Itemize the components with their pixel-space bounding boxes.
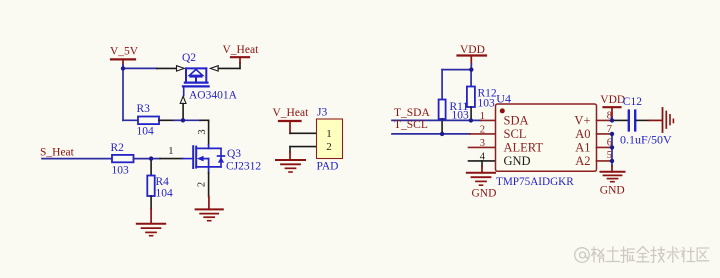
svg-text:2: 2 bbox=[197, 182, 208, 187]
svg-text:PAD: PAD bbox=[317, 160, 339, 172]
svg-text:VDD: VDD bbox=[600, 94, 625, 106]
svg-text:3: 3 bbox=[197, 129, 208, 134]
svg-text:1: 1 bbox=[168, 145, 174, 157]
svg-text:2: 2 bbox=[480, 124, 485, 135]
svg-text:SDA: SDA bbox=[504, 113, 529, 127]
svg-text:8: 8 bbox=[607, 111, 612, 122]
svg-text:ALERT: ALERT bbox=[504, 140, 544, 154]
svg-text:1: 1 bbox=[480, 111, 485, 122]
svg-text:T_SCL: T_SCL bbox=[394, 119, 428, 131]
svg-text:GND: GND bbox=[504, 154, 531, 168]
svg-text:104: 104 bbox=[156, 188, 174, 200]
svg-text:0.1uF/50V: 0.1uF/50V bbox=[620, 132, 672, 146]
svg-text:5: 5 bbox=[607, 150, 612, 161]
svg-text:S_Heat: S_Heat bbox=[40, 147, 75, 159]
svg-text:V_5V: V_5V bbox=[110, 46, 139, 58]
svg-text:TMP75AIDGKR: TMP75AIDGKR bbox=[496, 176, 574, 188]
svg-text:103: 103 bbox=[452, 109, 470, 121]
svg-text:J3: J3 bbox=[317, 106, 327, 118]
svg-text:103: 103 bbox=[112, 165, 130, 177]
svg-text:A1: A1 bbox=[575, 140, 590, 154]
svg-text:GND: GND bbox=[472, 188, 497, 200]
svg-text:7: 7 bbox=[607, 124, 612, 135]
svg-text:2: 2 bbox=[326, 141, 332, 153]
svg-text:R2: R2 bbox=[111, 142, 125, 154]
svg-text:R3: R3 bbox=[137, 103, 151, 115]
svg-text:Q3: Q3 bbox=[227, 148, 241, 160]
svg-text:R4: R4 bbox=[156, 176, 170, 188]
svg-text:V+: V+ bbox=[574, 113, 590, 127]
svg-text:C12: C12 bbox=[623, 96, 642, 108]
svg-text:A2: A2 bbox=[575, 154, 590, 168]
svg-text:A0: A0 bbox=[575, 127, 590, 141]
svg-text:103: 103 bbox=[478, 98, 496, 110]
svg-text:VDD: VDD bbox=[460, 44, 485, 56]
svg-text:AO3401A: AO3401A bbox=[189, 89, 238, 101]
svg-text:V_Heat: V_Heat bbox=[273, 107, 310, 119]
svg-text:SCL: SCL bbox=[504, 127, 527, 141]
svg-text:GND: GND bbox=[600, 184, 625, 196]
svg-text:3: 3 bbox=[480, 138, 485, 149]
svg-text:1: 1 bbox=[326, 128, 332, 140]
svg-text:T_SDA: T_SDA bbox=[394, 107, 430, 119]
svg-text:Q2: Q2 bbox=[182, 52, 196, 64]
svg-text:6: 6 bbox=[607, 137, 612, 148]
svg-text:4: 4 bbox=[480, 151, 486, 162]
svg-text:U4: U4 bbox=[496, 92, 511, 106]
svg-text:104: 104 bbox=[137, 126, 155, 138]
svg-text:V_Heat: V_Heat bbox=[223, 44, 260, 56]
svg-text:CJ2312: CJ2312 bbox=[226, 161, 261, 173]
